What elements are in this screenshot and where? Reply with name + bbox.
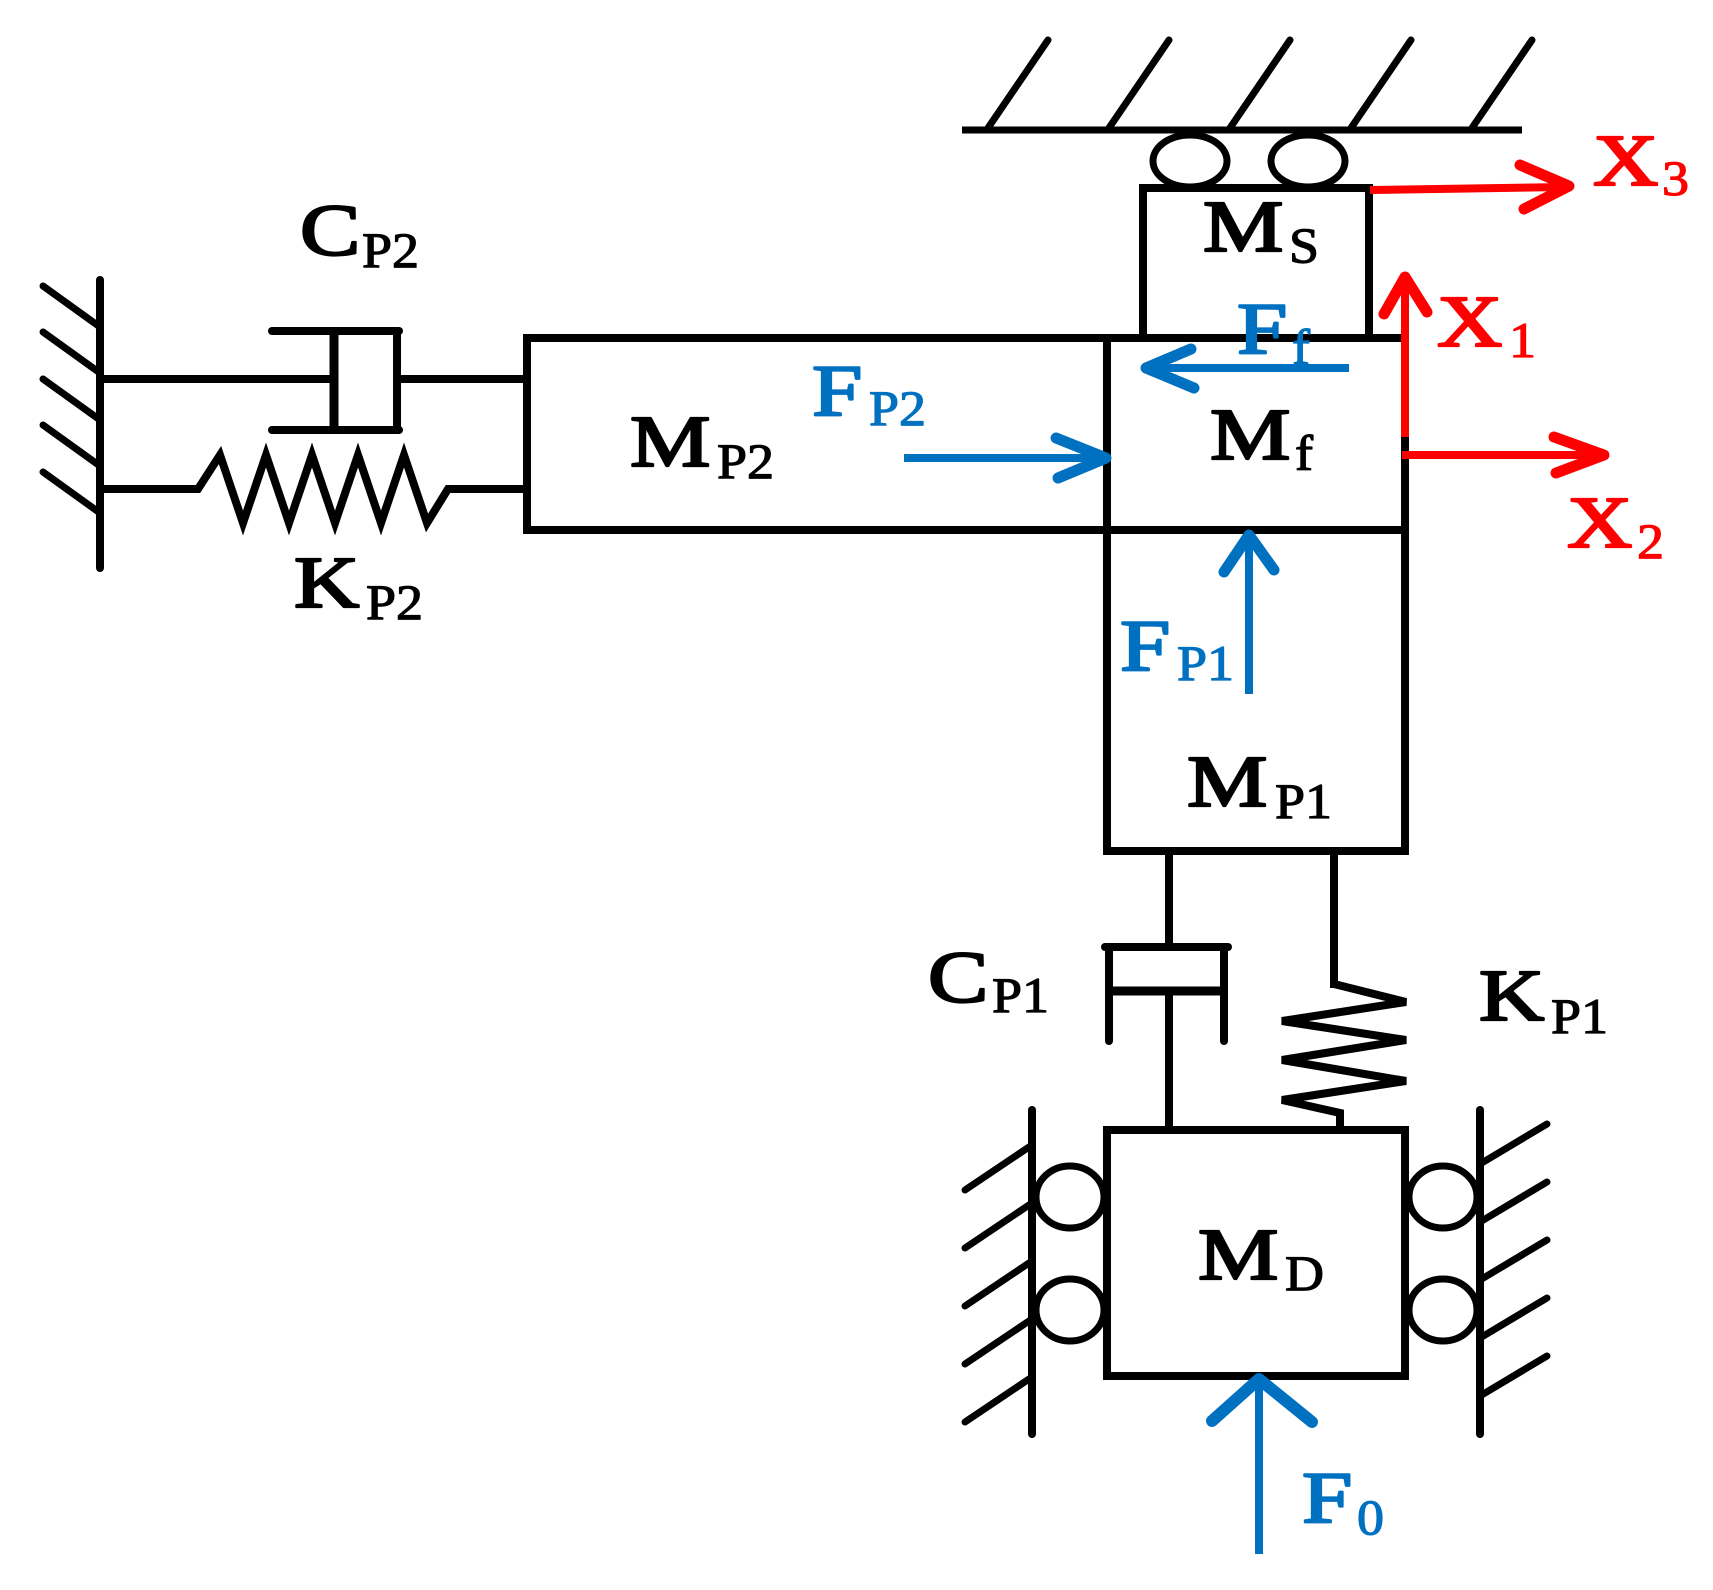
spring KP2 zigzag <box>100 455 527 523</box>
left wall line <box>96 280 104 568</box>
label X2 <box>1567 482 1664 569</box>
damper CP2 piston plate <box>330 331 339 430</box>
svg-text:M: M <box>1187 741 1267 822</box>
lower right wall line <box>1476 1110 1484 1434</box>
damper CP1 piston plate <box>1109 987 1224 996</box>
svg-text:P2: P2 <box>717 435 774 490</box>
svg-text:D: D <box>1285 1247 1324 1302</box>
svg-text:M: M <box>630 401 710 482</box>
svg-text:M: M <box>1210 394 1290 475</box>
label CP2 <box>300 190 419 278</box>
svg-text:2: 2 <box>1637 515 1664 570</box>
damper CP1 cylinder left wall <box>1105 947 1113 1041</box>
mass MS block <box>1143 188 1369 338</box>
force Ff arrow <box>1146 349 1349 388</box>
svg-text:C: C <box>300 190 360 271</box>
mass MP2 block <box>527 338 1107 530</box>
lower right roller top <box>1409 1166 1477 1228</box>
label FP2 <box>812 350 926 436</box>
svg-text:C: C <box>928 937 988 1018</box>
lower right wall hatch marks <box>1480 1124 1547 1396</box>
roller left under ceiling <box>1153 135 1227 187</box>
svg-text:0: 0 <box>1357 1491 1384 1546</box>
damper CP2 cylinder bottom <box>272 426 399 434</box>
damper CP1 rod to MD <box>1165 991 1173 1130</box>
svg-text:f: f <box>1292 321 1311 376</box>
svg-text:f: f <box>1295 427 1314 482</box>
lower left wall line <box>1028 1110 1036 1434</box>
label FP1 <box>1120 605 1234 691</box>
connector rod MP1 to CP1 <box>1165 851 1173 951</box>
label Ff <box>1237 288 1311 375</box>
svg-text:K: K <box>1479 955 1544 1036</box>
label X1 <box>1437 281 1536 368</box>
force FP2 arrow <box>904 438 1106 478</box>
svg-text:X: X <box>1567 482 1632 563</box>
label KP2 <box>294 542 423 630</box>
connector rod MP1 to KP1 <box>1330 851 1338 988</box>
damper CP1 cylinder right wall <box>1220 947 1228 1041</box>
roller right under ceiling <box>1271 135 1345 187</box>
lower left wall hatch marks <box>965 1145 1032 1422</box>
svg-text:1: 1 <box>1509 314 1536 369</box>
svg-text:X: X <box>1593 120 1658 201</box>
axis X1 arrow <box>1384 277 1427 437</box>
lower left roller top <box>1036 1166 1104 1228</box>
left wall hatch marks <box>43 286 100 513</box>
lower left roller bottom <box>1036 1279 1104 1341</box>
svg-text:X: X <box>1437 281 1502 362</box>
svg-text:F: F <box>812 350 862 431</box>
damper CP2 cylinder top <box>272 327 399 335</box>
label MP2 <box>630 401 774 489</box>
damper CP2 cylinder right wall <box>393 331 401 430</box>
spring KP1 zigzag <box>1282 984 1406 1130</box>
svg-text:M: M <box>1203 186 1283 267</box>
label F0 <box>1302 1457 1384 1545</box>
svg-text:M: M <box>1198 1214 1278 1295</box>
ceiling hatch marks <box>988 40 1532 128</box>
ceiling line (top fixed support) <box>962 127 1522 134</box>
svg-text:P1: P1 <box>1551 990 1608 1045</box>
damper CP2 rod from wall <box>100 375 334 383</box>
label Mf <box>1210 394 1314 481</box>
force F0 arrow <box>1212 1379 1312 1554</box>
svg-text:3: 3 <box>1662 152 1689 207</box>
label KP1 <box>1479 955 1608 1044</box>
svg-text:P1: P1 <box>1275 775 1332 830</box>
label MS <box>1203 186 1319 273</box>
svg-text:K: K <box>294 542 359 623</box>
label X3 <box>1593 120 1689 206</box>
svg-text:F: F <box>1302 1457 1352 1538</box>
svg-text:F: F <box>1237 288 1287 369</box>
svg-text:F: F <box>1120 605 1170 686</box>
svg-text:P2: P2 <box>869 382 926 437</box>
axis X3 arrow <box>1370 165 1569 209</box>
force FP1 arrow <box>1224 535 1274 694</box>
lower right roller bottom <box>1409 1279 1477 1341</box>
label MP1 <box>1187 741 1332 829</box>
svg-text:P2: P2 <box>362 224 419 279</box>
mass Mf block <box>1107 338 1405 530</box>
axis X2 arrow <box>1402 437 1604 473</box>
svg-text:P1: P1 <box>1177 637 1234 692</box>
damper CP2 rod to MP2 <box>397 375 527 383</box>
label MD <box>1198 1214 1324 1301</box>
svg-text:P1: P1 <box>992 969 1049 1024</box>
label CP1 <box>928 937 1049 1023</box>
svg-text:S: S <box>1289 219 1319 274</box>
mass MP1 block <box>1107 530 1405 851</box>
mass MD block <box>1107 1130 1405 1376</box>
svg-text:P2: P2 <box>366 576 423 631</box>
damper CP1 cylinder top <box>1105 943 1228 951</box>
